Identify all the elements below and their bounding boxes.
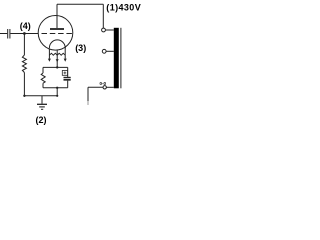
tube U1 grid (dashed) bbox=[42, 33, 73, 35]
wire cathode return riser bbox=[56, 88, 58, 96]
node grid junction bbox=[23, 32, 26, 35]
cathode lead center bbox=[56, 50, 58, 68]
node cathode network bottom bbox=[56, 87, 58, 89]
wire terminal P stub bbox=[105, 29, 113, 31]
wire cathode network bottom bbox=[43, 87, 68, 89]
capacitor C-in (coupling) bbox=[8, 29, 10, 39]
node ground bus left bbox=[23, 95, 25, 97]
arrow heater right bbox=[64, 59, 67, 62]
resistor R-cathode bbox=[41, 73, 45, 83]
wire grid drop bbox=[23, 34, 25, 56]
svg-text:(1)430V: (1)430V bbox=[106, 2, 141, 12]
heater lead left bbox=[48, 48, 50, 58]
tube U1 envelope bbox=[38, 16, 73, 51]
svg-text:(2): (2) bbox=[36, 115, 47, 125]
wire terminal 0 left bbox=[88, 87, 103, 101]
arrow heater left bbox=[48, 59, 51, 62]
wire cathode network top bbox=[43, 66, 68, 68]
polarity box plus bbox=[62, 71, 67, 76]
ground bbox=[37, 103, 47, 105]
transformer T1 core bbox=[120, 28, 122, 89]
wire terminal B+ stub bbox=[106, 50, 114, 52]
wire input to grid bbox=[10, 33, 38, 35]
wire right branch lower bbox=[67, 81, 69, 88]
svg-text:0-0: 0-0 bbox=[99, 81, 106, 86]
heater zigzag bbox=[49, 53, 65, 55]
svg-text:(3): (3) bbox=[75, 43, 86, 53]
wire plate to transformer bbox=[57, 4, 103, 28]
resistor R-grid bbox=[22, 55, 26, 73]
heater lead right bbox=[64, 47, 66, 59]
capacitor C-cathode (electrolytic) bbox=[64, 77, 71, 79]
node ground bus right bbox=[56, 95, 58, 97]
node cathode network top bbox=[56, 66, 58, 68]
svg-text:(4): (4) bbox=[20, 21, 31, 31]
terminal P (plate) bbox=[102, 28, 106, 32]
tube U1 plate bbox=[50, 28, 64, 30]
wire ground bus bbox=[24, 95, 57, 97]
transformer T1 primary winding bbox=[114, 28, 119, 89]
arrow cathode center bbox=[56, 59, 59, 62]
tube U1 cathode arch bbox=[49, 40, 65, 48]
wire plate lead bbox=[56, 4, 58, 28]
wire ground stem bbox=[41, 96, 43, 104]
terminal B+ bbox=[102, 49, 106, 53]
wire grid resistor to ground bus bbox=[23, 73, 25, 96]
terminal 0 bbox=[103, 86, 106, 89]
wire terminal 0 stub bbox=[106, 86, 113, 88]
wire input left segment bbox=[0, 33, 7, 35]
wire left branch lower bbox=[42, 83, 44, 88]
wire right branch upper bbox=[67, 67, 69, 77]
wire left branch upper bbox=[42, 67, 44, 73]
